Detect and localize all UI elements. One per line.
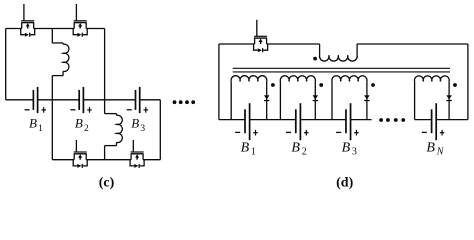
svg-text:B: B xyxy=(241,141,250,156)
svg-text:B: B xyxy=(75,116,83,131)
svg-text:B: B xyxy=(131,116,139,131)
svg-text:2: 2 xyxy=(84,124,89,134)
svg-text:1: 1 xyxy=(38,124,43,134)
svg-text:B: B xyxy=(29,116,37,131)
svg-text:3: 3 xyxy=(352,147,357,158)
svg-text:B: B xyxy=(426,141,435,156)
svg-text:B: B xyxy=(342,141,351,156)
svg-text:2: 2 xyxy=(302,147,307,158)
svg-text:1: 1 xyxy=(251,147,256,158)
svg-text:3: 3 xyxy=(140,124,145,134)
svg-text:(d): (d) xyxy=(336,175,353,190)
svg-text:B: B xyxy=(291,141,300,156)
svg-text:N: N xyxy=(436,147,445,158)
svg-text:(c): (c) xyxy=(99,175,115,190)
